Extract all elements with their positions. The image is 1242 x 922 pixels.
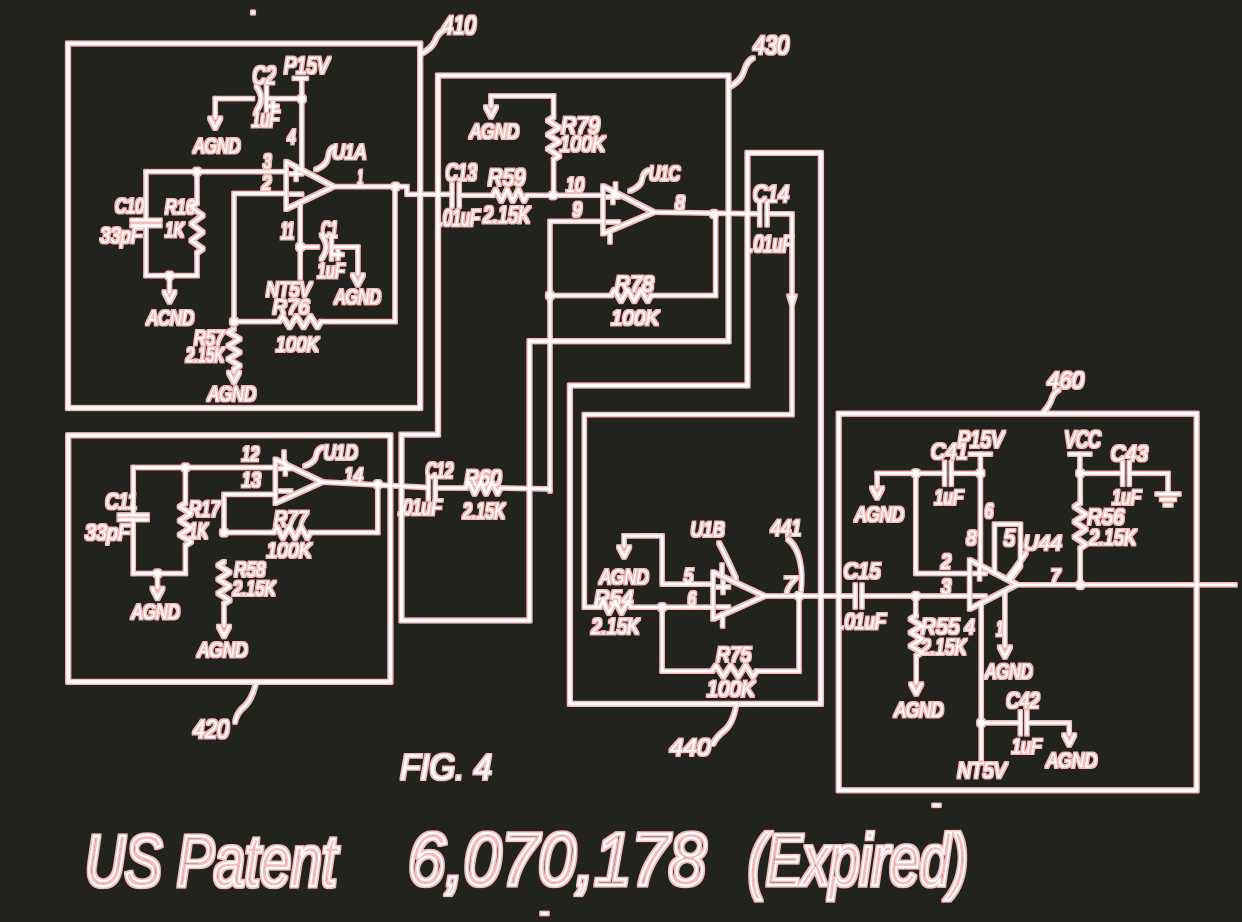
svg-text:430: 430 — [753, 30, 789, 60]
svg-text:.01uF: .01uF — [439, 205, 481, 232]
offset pin 5 box — [995, 524, 1021, 579]
ground AGND (C2) — [192, 118, 240, 158]
stray mark bottom center — [542, 912, 547, 915]
wire U44 output — [1017, 583, 1235, 586]
svg-text:2.15K: 2.15K — [185, 344, 224, 367]
svg-text:8: 8 — [966, 527, 976, 550]
capacitor C12 .01uF — [398, 458, 453, 520]
resistor R75 100K — [662, 596, 799, 702]
node pin9 / R78 junction — [546, 292, 553, 299]
svg-text:AGND: AGND — [333, 286, 381, 309]
power P15V (block 460) — [958, 426, 1006, 567]
block 430 box (notched outline) — [402, 76, 729, 621]
node pin13 / R58 / R77 junction — [220, 529, 227, 536]
svg-text:C15: C15 — [844, 559, 882, 584]
capacitor C41 1uF — [877, 439, 980, 509]
svg-text:6: 6 — [985, 500, 994, 523]
node C41 / pin2 junction — [912, 470, 919, 477]
svg-text:5: 5 — [1004, 525, 1016, 552]
label U1C with leader — [630, 163, 681, 191]
label 430 with leader — [730, 30, 790, 87]
svg-text:441: 441 — [771, 515, 802, 540]
capacitor C42 1uF — [981, 688, 1069, 758]
svg-text:C43: C43 — [1111, 441, 1149, 466]
wire R79 to AGND hook — [491, 96, 554, 106]
op-amp U1A — [286, 162, 333, 209]
op-amp U1D — [275, 452, 322, 503]
wire C10/R16 bottom join — [146, 274, 197, 277]
svg-text:2: 2 — [261, 172, 272, 195]
svg-text:R75: R75 — [716, 643, 751, 666]
pin 11 stub wire — [299, 203, 302, 278]
resistor R79 100K — [548, 96, 606, 195]
svg-text:100K: 100K — [611, 307, 660, 330]
svg-text:U1A: U1A — [332, 141, 366, 164]
svg-text:AGND: AGND — [196, 639, 248, 662]
node R54 / R75 junction — [658, 604, 665, 611]
svg-text:AGND: AGND — [984, 661, 1033, 684]
node C41 / P15V junction — [977, 470, 984, 477]
svg-text:NT5V: NT5V — [957, 758, 1008, 783]
svg-text:1uF: 1uF — [934, 487, 964, 510]
svg-text:2.15K: 2.15K — [482, 202, 530, 229]
svg-text:P15V: P15V — [284, 53, 331, 80]
wire C2 to AGND stub — [214, 99, 217, 118]
svg-text:2.15K: 2.15K — [590, 614, 640, 639]
capacitor C11 33pF — [85, 468, 147, 574]
svg-text:U1D: U1D — [324, 441, 358, 464]
svg-text:2.15K: 2.15K — [232, 578, 276, 601]
ground AGND (R79) — [468, 107, 519, 143]
label U1B with leader — [691, 519, 737, 579]
node pin2 / R57 / R76 junction — [230, 318, 237, 325]
resistor R17 1K — [180, 468, 221, 574]
svg-text:AGND: AGND — [1045, 750, 1097, 773]
node U1D output junction — [374, 481, 381, 488]
wire pin 2 input — [916, 473, 970, 573]
svg-text:C10: C10 — [115, 195, 144, 218]
label 460 with leader — [1044, 368, 1085, 413]
svg-text:3: 3 — [263, 150, 271, 173]
svg-text:6: 6 — [688, 588, 696, 611]
node U1B output junction (441) — [795, 592, 802, 599]
svg-text:1: 1 — [996, 618, 1003, 641]
capacitor C2 1uF — [215, 62, 302, 133]
capacitor C13 .01uF — [439, 160, 481, 233]
resistor R59 2.15K — [459, 165, 603, 230]
wire U1B output — [765, 595, 856, 598]
op-amp U1B — [713, 565, 765, 626]
svg-text:U44: U44 — [1023, 532, 1062, 555]
label 440 with leader — [670, 705, 737, 762]
node C10/R16 join — [166, 272, 173, 279]
wire AGND hook to pin 5 — [624, 536, 712, 584]
node pin3 / R16 junction — [193, 168, 200, 175]
node U44 output / R56 junction — [1077, 581, 1084, 588]
svg-text:2: 2 — [940, 550, 951, 573]
wire C15 to pin 3 — [862, 595, 970, 598]
ground ACND — [145, 276, 194, 330]
node U1A output / feedback junction — [392, 183, 399, 190]
wire C11/R17 bottom join — [133, 572, 185, 575]
svg-text:R60: R60 — [464, 465, 501, 491]
wire pin 9 — [550, 221, 603, 491]
svg-text:NT5V: NT5V — [266, 279, 313, 302]
svg-text:C41: C41 — [931, 439, 968, 464]
svg-text:12: 12 — [242, 443, 260, 466]
capacitor C15 .01uF — [840, 559, 887, 635]
svg-text:1uF: 1uF — [317, 260, 345, 283]
svg-text:100K: 100K — [707, 676, 756, 701]
resistor R55 2.15K — [910, 596, 967, 694]
block 440 box (notched outline) — [570, 153, 821, 704]
svg-text:AGND: AGND — [130, 601, 180, 624]
label U44 with leader — [1007, 532, 1062, 580]
capacitor C1 1uF — [300, 217, 363, 285]
resistor R58 2.15K — [218, 559, 276, 637]
stray mark below block 460 — [934, 804, 939, 807]
earth ground (C43) — [1157, 473, 1179, 505]
capacitor C14 .01uF — [749, 181, 794, 258]
wire pin 12 input — [133, 466, 275, 469]
block 410 box — [68, 44, 420, 409]
wire pin 1 to AGND — [1000, 591, 1010, 657]
svg-text:440: 440 — [670, 735, 712, 762]
node pin11 / C1 junction — [297, 243, 304, 250]
capacitor C10 33pF — [100, 172, 160, 276]
stray speck top center — [251, 11, 254, 14]
label 441 with leader — [771, 515, 802, 590]
svg-text:2.15K: 2.15K — [462, 498, 506, 523]
svg-text:FIG. 4: FIG. 4 — [400, 747, 492, 788]
svg-text:13: 13 — [242, 469, 261, 492]
wire pin 4 down to NT5V — [980, 603, 983, 759]
svg-text:.01uF: .01uF — [840, 609, 887, 634]
resistor R78 100K — [550, 214, 716, 330]
resistor R77 100K — [224, 484, 378, 562]
svg-text:C1: C1 — [321, 217, 337, 243]
node pin4 / C42 junction — [978, 719, 985, 726]
ground AGND (C11) — [130, 574, 180, 624]
svg-text:R59: R59 — [488, 165, 525, 192]
label 410 with leader — [421, 10, 476, 54]
svg-text:410: 410 — [442, 10, 476, 40]
svg-text:5: 5 — [684, 565, 694, 588]
wire U1A output — [334, 187, 452, 195]
svg-text:C42: C42 — [1006, 688, 1039, 713]
svg-text:C11: C11 — [105, 489, 137, 514]
block 460 box — [839, 414, 1197, 791]
wire C14 down to R54 (long route with arrow) — [584, 214, 792, 607]
svg-text:2.15K: 2.15K — [1088, 525, 1137, 550]
svg-text:10: 10 — [566, 174, 584, 197]
resistor R54 2.15K — [584, 586, 712, 639]
resistor R60 2.15K — [435, 465, 550, 523]
svg-text:1uF: 1uF — [1012, 736, 1043, 759]
op-amp U44 — [970, 560, 1017, 609]
svg-text:4: 4 — [287, 126, 295, 149]
svg-text:U1C: U1C — [649, 163, 681, 186]
label U1A with leader — [316, 141, 366, 170]
node C15 / R55 junction — [912, 592, 919, 599]
svg-text:33pF: 33pF — [85, 520, 131, 545]
svg-text:1K: 1K — [189, 518, 209, 543]
flow arrow on C14 wire — [788, 295, 797, 309]
node VCC junction — [1077, 470, 1084, 477]
svg-text:R16: R16 — [165, 196, 195, 219]
svg-text:R78: R78 — [615, 271, 655, 296]
svg-text:US Patent: US Patent — [85, 822, 339, 902]
svg-text:AGND: AGND — [854, 503, 904, 526]
svg-text:420: 420 — [193, 714, 229, 744]
power P15V (block 410) — [284, 53, 331, 170]
svg-text:AGND: AGND — [893, 699, 944, 722]
svg-text:AGND: AGND — [598, 566, 649, 589]
svg-text:9: 9 — [573, 198, 583, 221]
wire pin 3 input — [146, 170, 286, 173]
ground AGND (U1B +) — [598, 547, 649, 589]
ground AGND (C41) — [854, 488, 904, 526]
node C11/R17 join — [154, 570, 161, 577]
power VCC — [1064, 426, 1101, 473]
node U1C output junction — [710, 210, 717, 217]
svg-text:2.15K: 2.15K — [920, 634, 967, 659]
wire pin 2 feedback branch — [234, 194, 286, 322]
ground AGND (C42) — [1045, 735, 1097, 773]
wire U1D output — [322, 482, 428, 488]
svg-text:6,070,178: 6,070,178 — [408, 818, 706, 901]
svg-text:460: 460 — [1047, 368, 1085, 395]
svg-text:VCC: VCC — [1064, 426, 1101, 453]
block 420 box — [68, 435, 390, 682]
svg-text:11: 11 — [281, 218, 295, 245]
resistor R56 2.15K — [1074, 473, 1137, 585]
resistor R57 2.15K — [185, 327, 239, 383]
svg-text:1uF: 1uF — [252, 106, 280, 133]
svg-text:AGND: AGND — [206, 383, 256, 406]
svg-text:C13: C13 — [446, 160, 477, 187]
svg-text:(Expired): (Expired) — [748, 821, 968, 901]
svg-text:100K: 100K — [276, 333, 320, 356]
node pin12 / R17 junction — [182, 464, 189, 471]
node P15V / C2 junction — [298, 95, 305, 102]
wire U1C output pin 8 — [654, 212, 760, 214]
svg-text:AGND: AGND — [192, 135, 240, 158]
svg-text:1K: 1K — [165, 219, 185, 242]
svg-text:100K: 100K — [267, 539, 313, 562]
svg-text:AGND: AGND — [468, 120, 519, 143]
svg-text:R54: R54 — [594, 586, 633, 611]
svg-text:C2: C2 — [253, 62, 276, 90]
label 420 with leader — [193, 683, 256, 744]
node R59 / R79 junction — [549, 192, 556, 199]
capacitor C43 1uF — [1080, 441, 1168, 510]
label U1D with leader — [305, 441, 358, 466]
svg-text:.01uF: .01uF — [749, 231, 794, 258]
resistor R16 1K — [165, 172, 203, 276]
op-amp U1C — [603, 184, 654, 242]
resistor R76 100K — [234, 187, 395, 356]
svg-text:C12: C12 — [426, 458, 453, 483]
wire C41 to AGND stub — [876, 473, 879, 487]
svg-text:100K: 100K — [560, 131, 607, 156]
wire pin 13 feedback branch — [224, 494, 275, 532]
svg-text:.01uF: .01uF — [398, 495, 443, 520]
svg-text:R77: R77 — [274, 507, 309, 532]
svg-text:33pF: 33pF — [100, 223, 143, 248]
svg-text:ACND: ACND — [145, 307, 194, 330]
svg-text:U1B: U1B — [691, 519, 725, 542]
svg-text:C14: C14 — [753, 181, 789, 208]
